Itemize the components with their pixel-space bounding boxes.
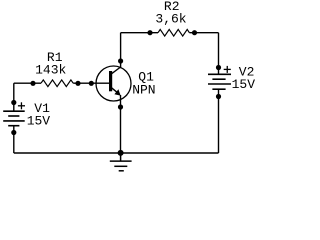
wire top rail left of R2 — [121, 32, 158, 34]
wire right vertical upper — [218, 33, 220, 75]
node R2 right — [192, 30, 197, 35]
svg-text:15V: 15V — [27, 114, 51, 129]
svg-text:143k: 143k — [35, 62, 66, 77]
wire left vertical lower — [13, 126, 15, 153]
wire right vertical lower — [218, 89, 220, 153]
wire collector vertical — [120, 33, 122, 68]
node V1 top — [11, 100, 16, 105]
transistor Q1 — [96, 66, 131, 101]
wire top rail right of R2 — [189, 32, 218, 34]
node collector — [118, 58, 123, 63]
node R1 left — [30, 81, 35, 86]
svg-text:15V: 15V — [232, 77, 256, 92]
node V1 bottom — [11, 130, 16, 135]
node V2 bottom — [216, 94, 221, 99]
svg-text:NPN: NPN — [132, 82, 155, 97]
wire R1 row from left corner to base bar — [14, 82, 41, 84]
node base — [89, 81, 94, 86]
wire left vertical upper — [13, 83, 15, 111]
node emitter — [118, 104, 123, 109]
node R2 left — [147, 30, 152, 35]
node R1 right — [75, 81, 80, 86]
battery V2 — [208, 74, 231, 89]
wire bottom rail — [14, 152, 219, 154]
node V2 top — [216, 65, 221, 70]
resistor R2 — [158, 29, 189, 36]
resistor R1 — [41, 80, 73, 87]
ground — [110, 153, 132, 171]
svg-text:3,6k: 3,6k — [155, 12, 186, 27]
node ground junction — [118, 150, 124, 156]
battery V1 — [3, 111, 25, 126]
wire R1 to transistor base — [73, 82, 110, 84]
battery V1 plus sign — [18, 102, 25, 109]
wire emitter vertical — [120, 95, 122, 153]
battery V2 plus sign — [224, 66, 231, 73]
